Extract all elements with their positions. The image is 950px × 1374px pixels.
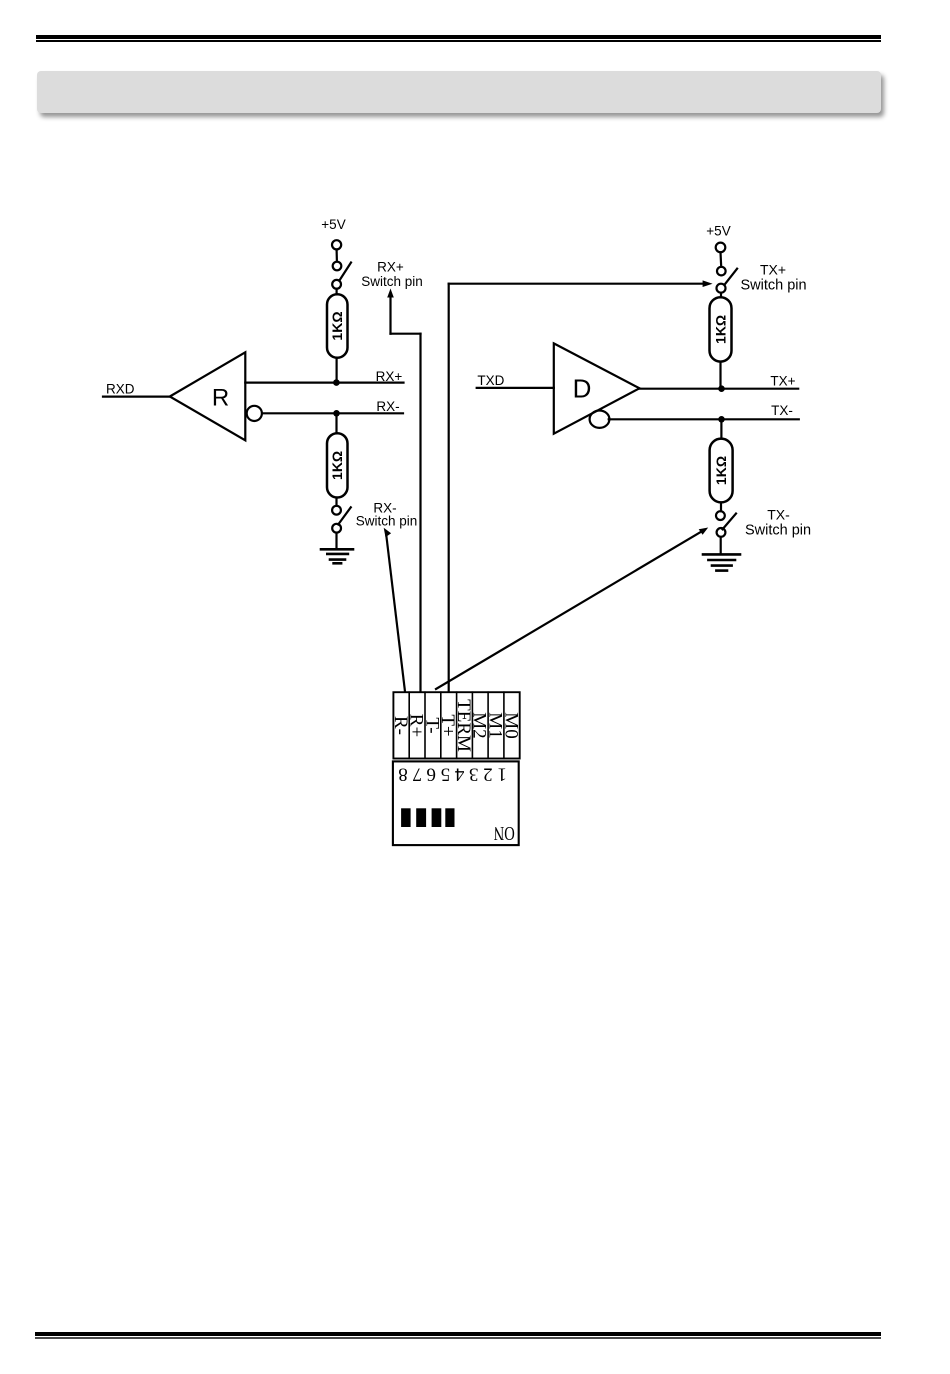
svg-text:TX-: TX- — [771, 403, 793, 418]
svg-text:RX+: RX+ — [377, 260, 404, 275]
svg-text:Switch pin: Switch pin — [356, 514, 418, 529]
svg-text:RXD: RXD — [106, 381, 135, 396]
svg-text:7: 7 — [412, 763, 422, 784]
svg-text:TX-: TX- — [767, 507, 790, 523]
svg-text:R: R — [212, 385, 229, 412]
svg-text:1KΩ: 1KΩ — [713, 456, 729, 485]
svg-text:TX+: TX+ — [760, 262, 786, 278]
svg-text:1KΩ: 1KΩ — [712, 315, 728, 344]
svg-text:Switch pin: Switch pin — [745, 522, 811, 538]
svg-text:1KΩ: 1KΩ — [329, 451, 345, 480]
svg-text:3: 3 — [469, 763, 479, 784]
svg-text:4: 4 — [454, 763, 464, 784]
svg-text:D: D — [573, 374, 592, 404]
svg-text:Switch pin: Switch pin — [361, 274, 423, 289]
svg-text:Switch pin: Switch pin — [740, 277, 806, 293]
svg-text:ON: ON — [494, 822, 515, 844]
svg-text:M0: M0 — [500, 712, 521, 738]
svg-text:+5V: +5V — [321, 217, 345, 232]
svg-text:TXD: TXD — [477, 373, 504, 388]
svg-text:+5V: +5V — [706, 224, 730, 239]
svg-text:2: 2 — [483, 763, 493, 784]
svg-text:RX+: RX+ — [376, 369, 403, 384]
svg-text:RX-: RX- — [376, 399, 399, 414]
svg-text:1: 1 — [497, 763, 507, 784]
svg-text:5: 5 — [441, 763, 451, 784]
svg-text:TX+: TX+ — [770, 373, 795, 388]
svg-text:6: 6 — [427, 763, 437, 784]
svg-text:8: 8 — [398, 763, 408, 784]
svg-text:1KΩ: 1KΩ — [329, 311, 345, 340]
